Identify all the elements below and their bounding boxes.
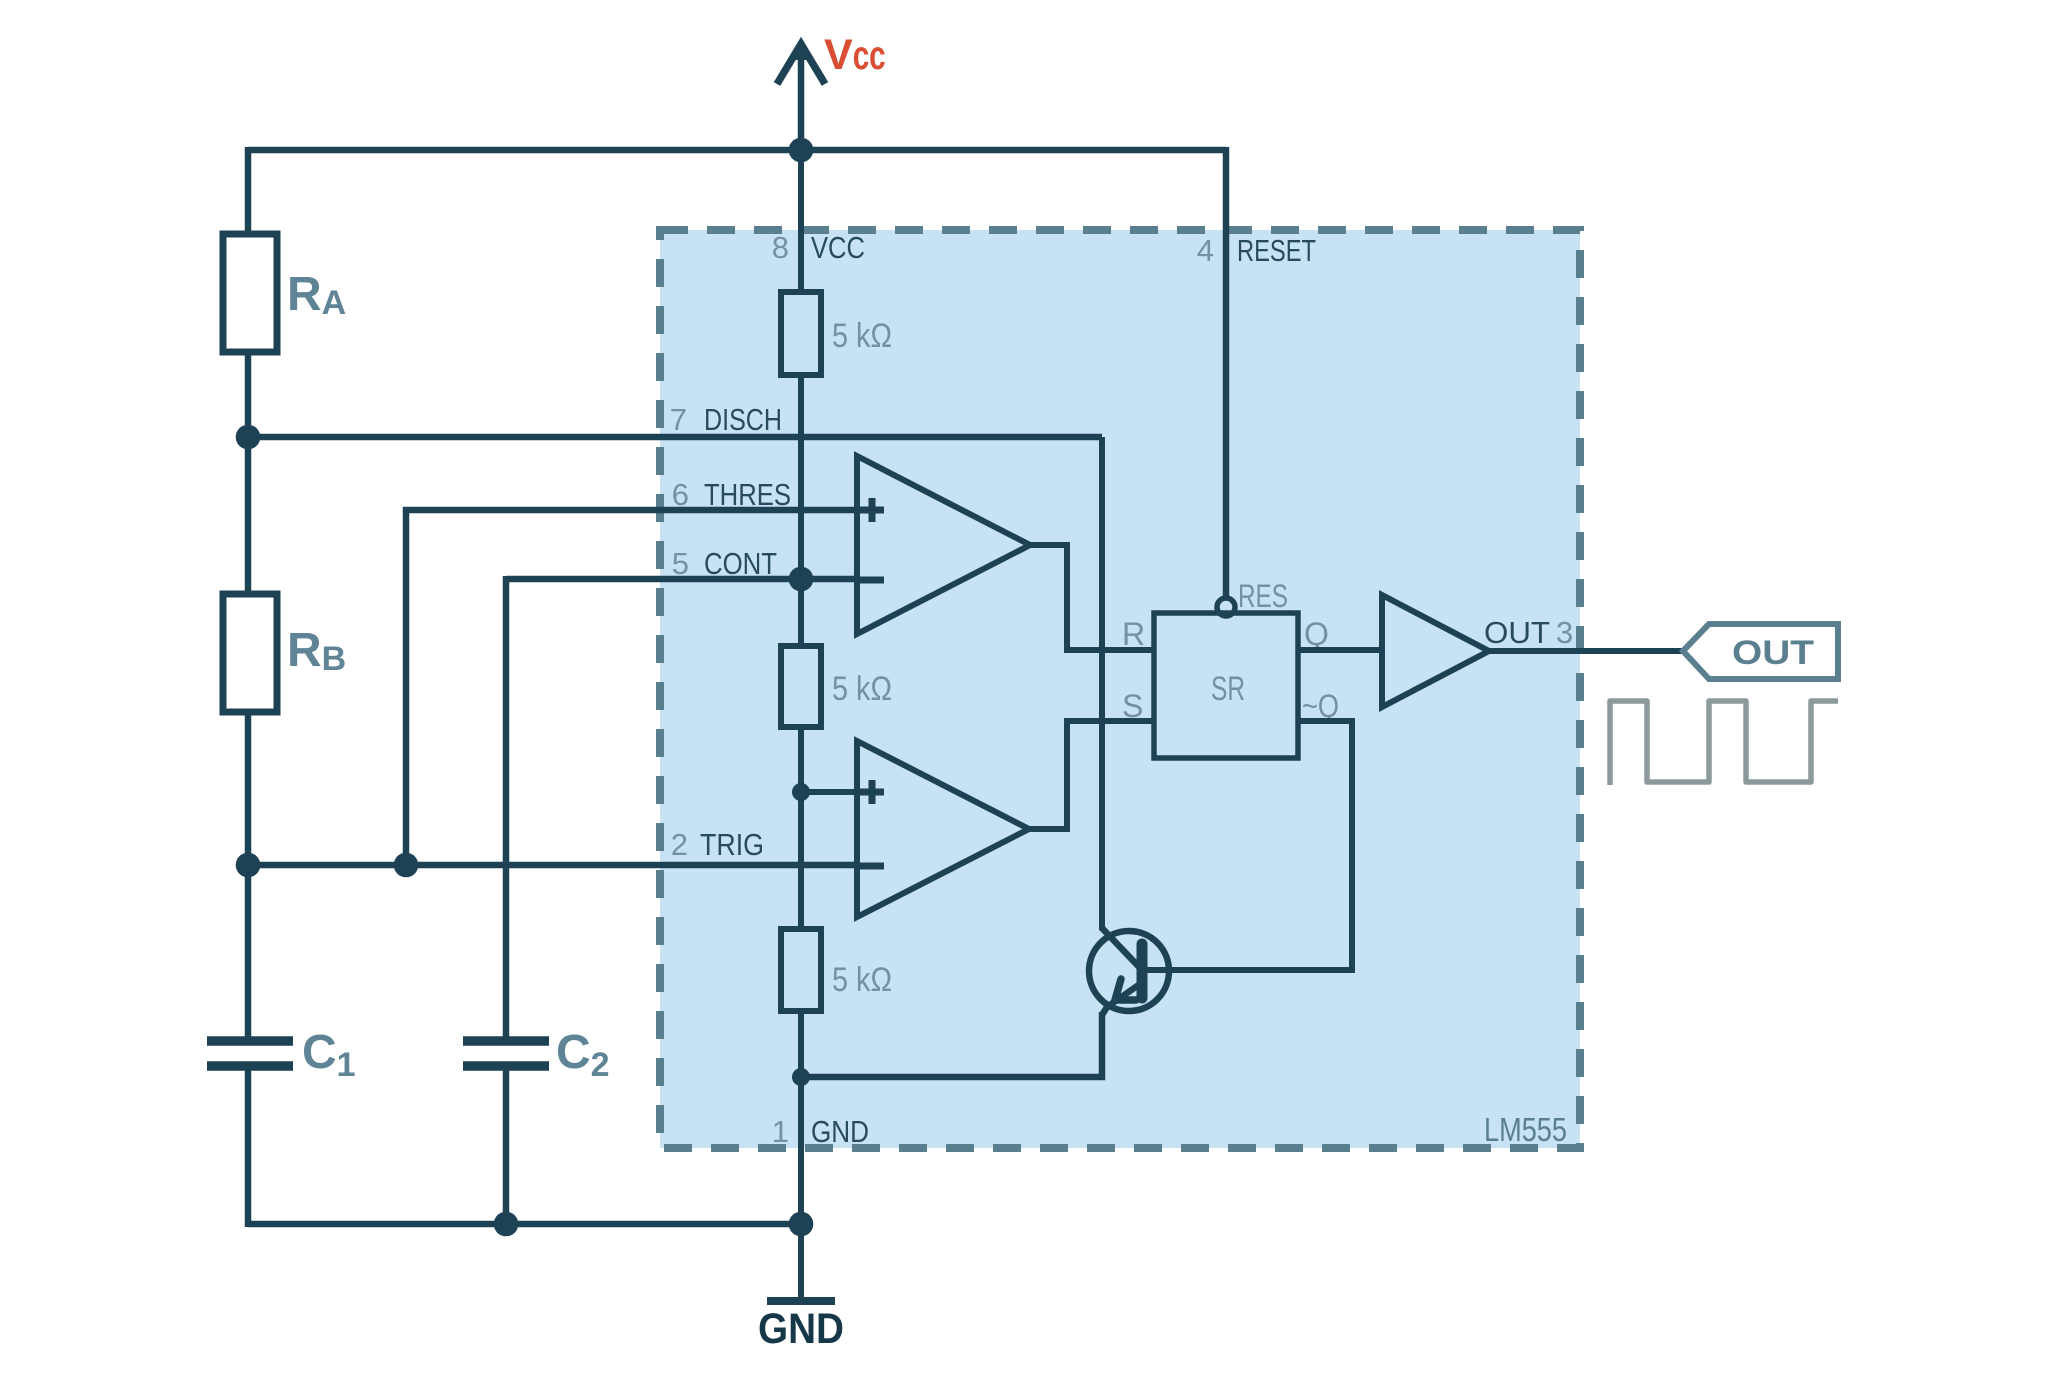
wire comparator2 output to S [1029, 721, 1154, 829]
svg-text:S: S [1122, 688, 1143, 724]
svg-text:SR: SR [1211, 670, 1245, 708]
wire bottom ground rail [248, 1221, 801, 1228]
wire emitter to ground chain [801, 1012, 1102, 1077]
wire ~Q to transistor base [1144, 721, 1352, 970]
capacitor C1 [207, 865, 293, 1227]
svg-text:THRES: THRES [704, 477, 791, 512]
op-amp comparator 2 [857, 741, 1029, 917]
svg-text:VCC: VCC [811, 230, 865, 265]
wire TRIG pin2 horizontal [248, 862, 857, 869]
resistor 5k middle [781, 646, 821, 727]
svg-text:RB: RB [287, 624, 346, 678]
buffer output driver [1382, 595, 1489, 707]
resistor RA [223, 234, 277, 352]
connector OUT tag [1683, 624, 1838, 679]
svg-text:RESET: RESET [1237, 233, 1316, 268]
junction node 7 [236, 425, 261, 450]
svg-text:8: 8 [772, 230, 789, 265]
IC body LM555 shaded region [660, 230, 1580, 1148]
svg-text:OUT: OUT [1732, 634, 1814, 672]
svg-text:5 kΩ: 5 kΩ [832, 317, 892, 355]
wire comparator2 plus input [801, 789, 857, 795]
capacitor C2 [463, 1041, 549, 1227]
svg-text:R: R [1122, 616, 1145, 652]
svg-text:7: 7 [670, 402, 687, 437]
wire THRES branch vertical [403, 507, 410, 865]
waveform square wave [1610, 701, 1838, 785]
svg-text:RA: RA [287, 268, 346, 322]
svg-text:2: 2 [671, 827, 688, 862]
svg-text:TRIG: TRIG [700, 827, 764, 862]
svg-text:6: 6 [672, 477, 689, 512]
wire RESET pin4 vertical [1223, 147, 1230, 599]
svg-text:Q: Q [1304, 616, 1329, 652]
power Vcc arrow [777, 41, 825, 150]
svg-text:5 kΩ: 5 kΩ [832, 670, 892, 708]
junction ground node [789, 1212, 814, 1237]
wire left branch to RA [245, 147, 252, 236]
transistor Q1 discharge [1089, 437, 1169, 1015]
svg-text:C2: C2 [556, 1026, 610, 1084]
svg-text:C1: C1 [302, 1026, 356, 1084]
resistor 5k bottom [781, 929, 821, 1011]
svg-text:1: 1 [772, 1114, 789, 1149]
svg-text:DISCH: DISCH [704, 402, 782, 437]
wire comparator1 output to R [1030, 545, 1154, 650]
resistor RB [223, 594, 277, 712]
junction node 2/6 left [236, 853, 261, 878]
junction comparator2 plus tap [792, 783, 810, 801]
wire RA to node7 [245, 352, 252, 596]
op-amp comparator 1 [857, 456, 1030, 634]
ground symbol GND [758, 1301, 844, 1353]
svg-text:Vcc: Vcc [824, 31, 886, 79]
RES inverter bubble [1217, 598, 1235, 616]
wire CONT pin5 horizontal [506, 576, 857, 583]
wire RB to node TRIG [245, 712, 252, 868]
svg-text:RES: RES [1238, 578, 1288, 614]
junction emitter node [792, 1068, 810, 1086]
svg-text:5 kΩ: 5 kΩ [832, 961, 892, 999]
wire top Vcc rail [248, 147, 1226, 154]
wire THRES pin6 horizontal [403, 507, 857, 514]
junction C2 to ground rail [494, 1212, 519, 1237]
svg-text:OUT: OUT [1484, 615, 1550, 650]
svg-text:5: 5 [672, 546, 689, 581]
internal divider chain vertical wire [798, 150, 804, 1301]
junction Vcc rail [789, 138, 814, 163]
wire Q to buffer [1298, 647, 1382, 653]
resistor 5k top [781, 292, 821, 375]
svg-text:CONT: CONT [704, 546, 777, 581]
junction CONT at divider [789, 567, 814, 592]
wire buffer to OUT [1489, 648, 1683, 654]
wire CONT branch vertical to C2 [503, 576, 510, 1039]
svg-text:LM555: LM555 [1484, 1111, 1567, 1148]
latch SR box [1154, 613, 1298, 758]
junction THRES branch [394, 853, 419, 878]
wire DISCH pin7 horizontal [248, 434, 1102, 441]
svg-text:4: 4 [1197, 233, 1214, 268]
svg-text:GND: GND [811, 1114, 869, 1149]
svg-text:GND: GND [758, 1305, 844, 1353]
svg-text:3: 3 [1556, 615, 1573, 650]
